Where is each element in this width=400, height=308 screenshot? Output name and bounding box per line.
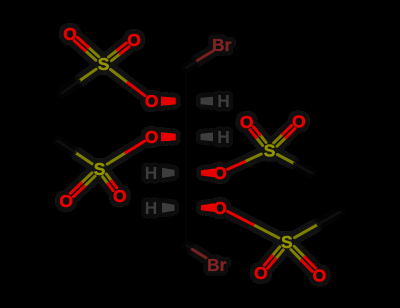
- backbone wire C1-C2-C3-C4-C5-C6 (carbon chain, black on black): [185, 68, 187, 246]
